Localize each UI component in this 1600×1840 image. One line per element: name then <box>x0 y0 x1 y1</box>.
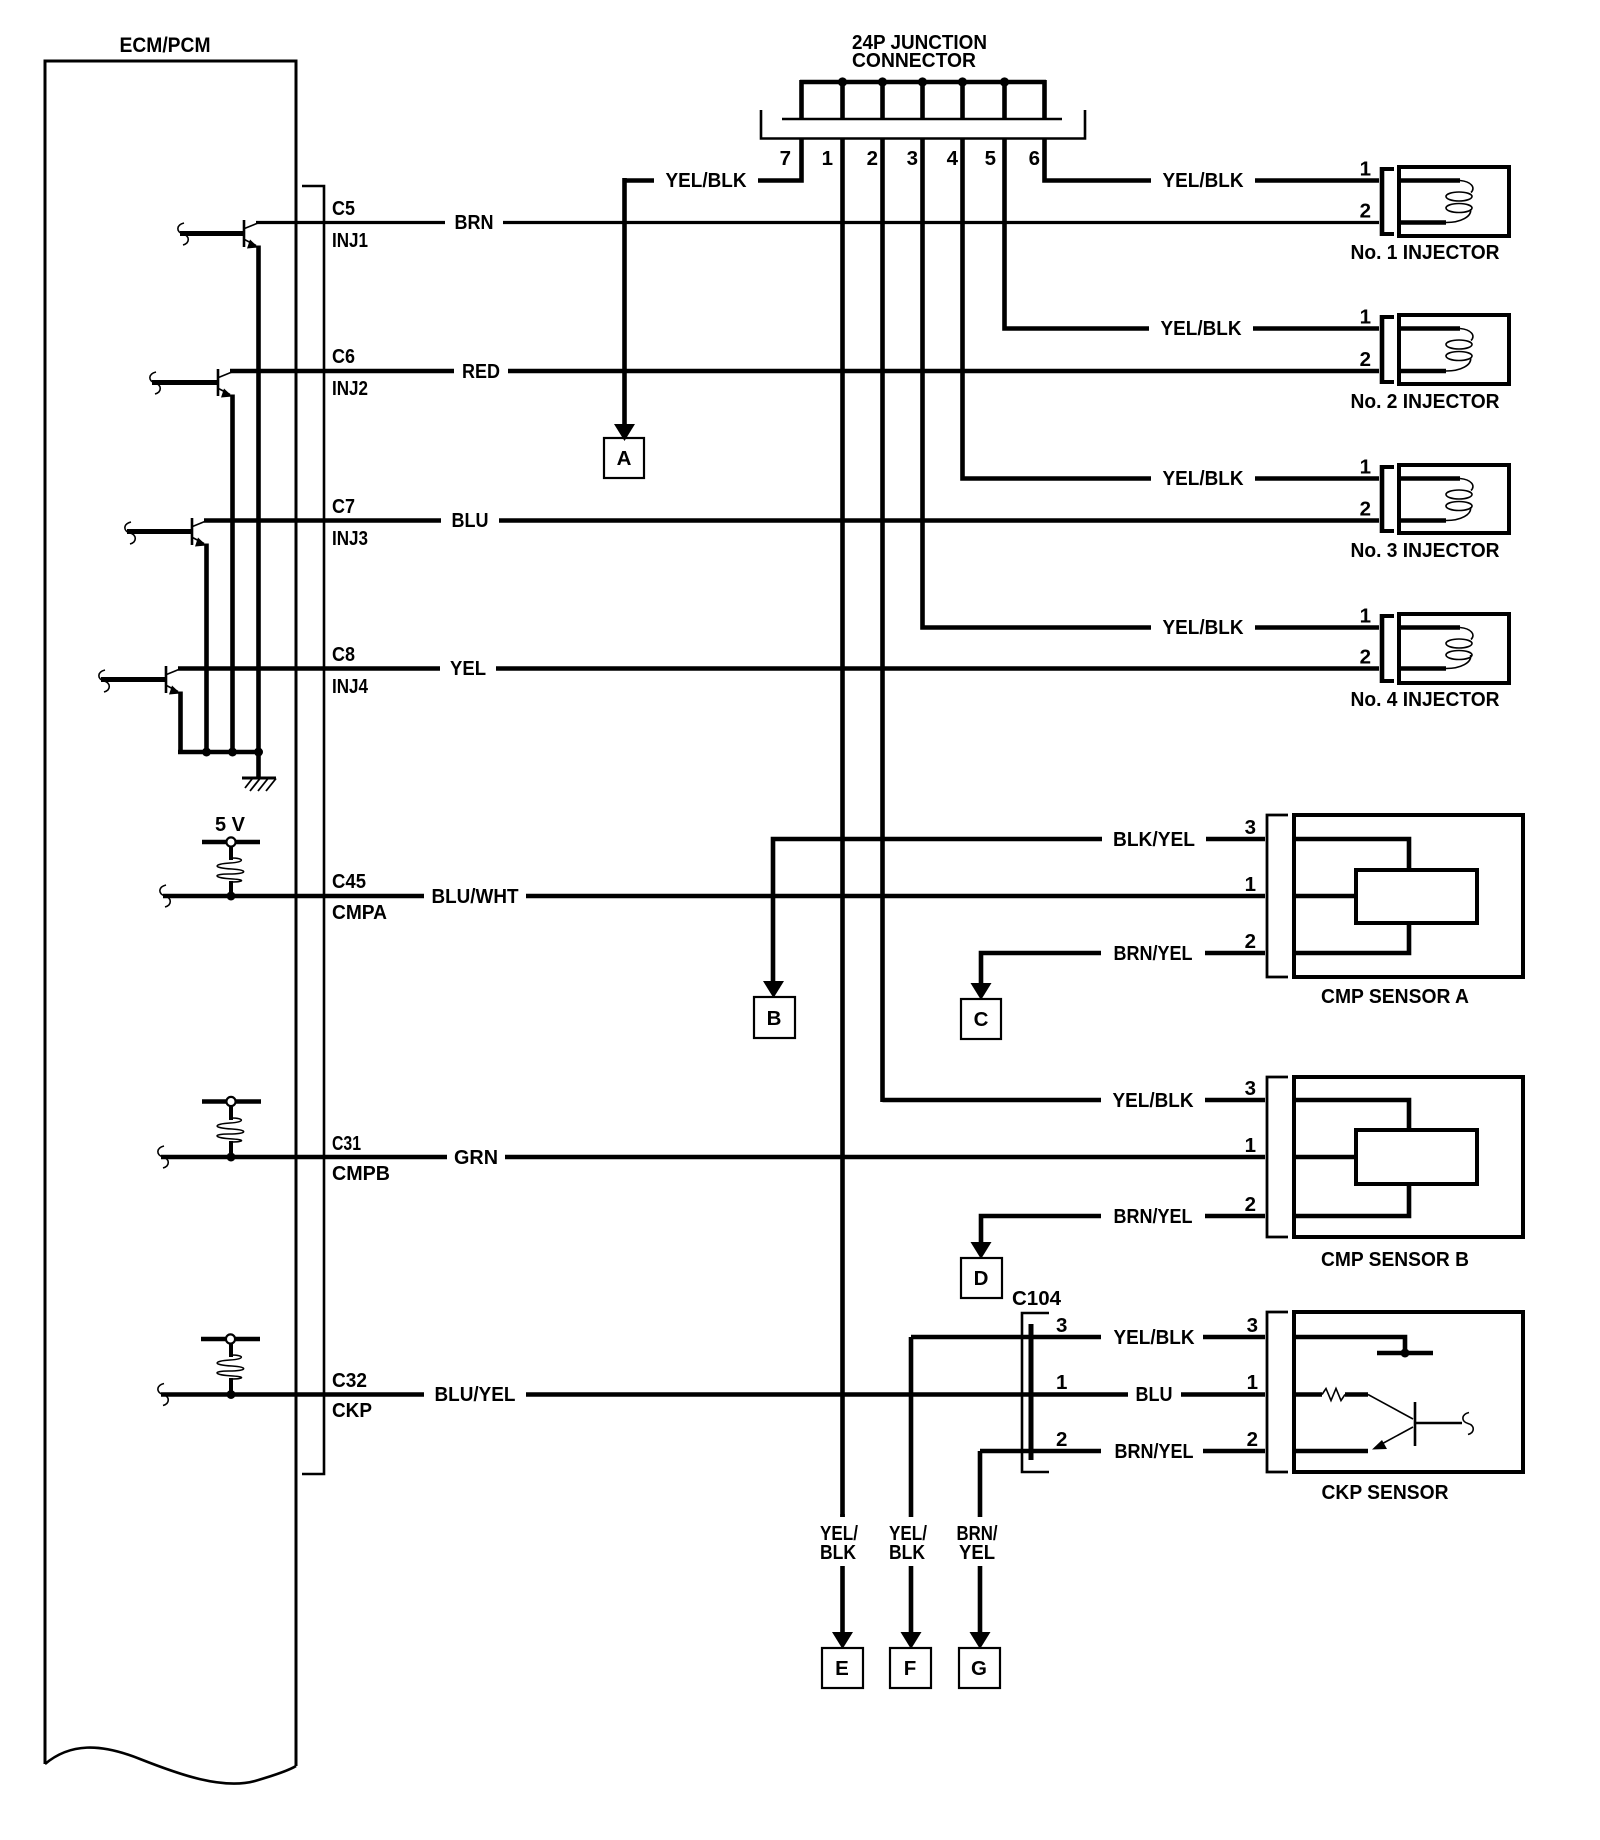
wire junction pin 2 vertical <box>880 139 885 1103</box>
node bus junction 3 <box>918 77 927 86</box>
svg-text:2: 2 <box>1245 1193 1256 1216</box>
svg-text:YEL: YEL <box>959 1541 995 1564</box>
svg-text:BLK/YEL: BLK/YEL <box>1113 828 1195 851</box>
svg-text:3: 3 <box>1245 816 1256 839</box>
CKP sensor box <box>1294 1312 1523 1472</box>
svg-text:BLK: BLK <box>889 1541 925 1564</box>
wire YEL/BLK to No.4 injector pin 1 <box>1255 625 1379 630</box>
5V supply CMPA <box>202 840 260 845</box>
connector bracket CMP sensor B <box>1267 1077 1288 1237</box>
svg-text:No. 4 INJECTOR: No. 4 INJECTOR <box>1351 688 1500 711</box>
node A <box>604 438 644 478</box>
24P junction connector bus bar <box>800 80 1046 85</box>
svg-text:C104: C104 <box>1012 1287 1062 1310</box>
transistor INJ2 driver <box>150 372 160 394</box>
svg-text:YEL: YEL <box>450 657 486 680</box>
svg-text:CMP SENSOR B: CMP SENSOR B <box>1321 1248 1469 1271</box>
CMP sensor A internal element <box>1296 839 1409 872</box>
24P junction connector body lower line <box>761 110 1085 139</box>
node C <box>961 999 1001 1039</box>
wire junction pin 5 vertical <box>1005 139 1150 329</box>
svg-text:INJ4: INJ4 <box>332 675 368 698</box>
svg-text:No. 3 INJECTOR: No. 3 INJECTOR <box>1351 539 1500 562</box>
5V supply CKP <box>201 1337 260 1342</box>
ground <box>256 752 261 778</box>
svg-text:5: 5 <box>985 147 996 170</box>
CMP sensor B box <box>1294 1077 1523 1237</box>
svg-text:RED: RED <box>462 360 500 383</box>
svg-text:1: 1 <box>1247 1371 1258 1394</box>
svg-text:2: 2 <box>1360 200 1371 223</box>
wire emitter ground bus <box>178 750 259 755</box>
wire YEL (C8 to No.4 injector pin 2) <box>178 666 440 671</box>
node C32 junction <box>227 1390 236 1399</box>
wire junction pin 4 vertical <box>963 139 1152 479</box>
connector C104 <box>1022 1313 1049 1472</box>
ECM/PCM box <box>45 61 296 1766</box>
svg-text:E: E <box>835 1657 849 1680</box>
CKP sensor internal pin 2 lead <box>1296 1449 1368 1454</box>
node emitter junction 3 <box>254 748 263 757</box>
svg-text:1: 1 <box>1360 605 1371 628</box>
svg-text:1: 1 <box>822 147 833 170</box>
svg-text:BRN/YEL: BRN/YEL <box>1114 942 1193 965</box>
connector bracket No.1 injector <box>1380 167 1385 236</box>
svg-text:CMPB: CMPB <box>332 1162 390 1185</box>
svg-text:C6: C6 <box>332 345 355 368</box>
svg-text:1: 1 <box>1056 1371 1067 1394</box>
arrow to G <box>970 1632 991 1649</box>
wire C45 break squiggle <box>160 885 170 907</box>
svg-text:2: 2 <box>1360 498 1371 521</box>
svg-text:BLU/WHT: BLU/WHT <box>432 885 519 908</box>
wire BRN/YEL CMP sensor A pin 2 <box>981 953 1101 985</box>
svg-text:2: 2 <box>1056 1428 1067 1451</box>
wire INJ3 emitter <box>204 544 209 753</box>
svg-text:3: 3 <box>1245 1077 1256 1100</box>
arrow to C <box>971 983 992 1000</box>
wire YEL/BLK vertical to F <box>909 1337 914 1517</box>
connector bracket No.2 injector <box>1380 315 1385 384</box>
node bus junction 4 <box>958 77 967 86</box>
transistor INJ4 driver <box>99 670 109 692</box>
svg-text:BRN/YEL: BRN/YEL <box>1115 1440 1194 1463</box>
svg-text:C32: C32 <box>332 1369 367 1392</box>
wire YEL/BLK vertical to E <box>840 1514 845 1517</box>
svg-text:1: 1 <box>1360 158 1371 181</box>
svg-text:INJ3: INJ3 <box>332 527 368 550</box>
ECM connector strip <box>302 186 324 1474</box>
wire BLK/YEL CMP sensor A pin 3 <box>773 839 1102 983</box>
wire BRN/YEL CMP sensor B pin 2 <box>981 1216 1101 1244</box>
svg-text:YEL/BLK: YEL/BLK <box>666 169 747 192</box>
wire C31 break squiggle <box>158 1146 168 1168</box>
resistor CMPA pull-up <box>217 858 244 882</box>
wire BLU/YEL (C32 to CKP sensor pin 1 via C104) <box>161 1392 424 1397</box>
wire YEL/BLK to No.3 injector pin 1 <box>1255 476 1379 481</box>
svg-text:YEL/BLK: YEL/BLK <box>1161 317 1242 340</box>
CKP sensor internal pickup element <box>1368 1395 1413 1420</box>
CMP sensor B internal element <box>1296 1100 1409 1132</box>
node emitter junction 2 <box>228 748 237 757</box>
svg-text:C: C <box>974 1008 989 1031</box>
svg-text:4: 4 <box>947 147 959 170</box>
wire YEL/BLK to No.2 injector pin 1 <box>1253 326 1379 331</box>
svg-text:2: 2 <box>1360 348 1371 371</box>
wire junction pin 7 drop <box>758 139 802 181</box>
svg-text:A: A <box>617 447 632 470</box>
svg-text:BLK: BLK <box>820 1541 856 1564</box>
svg-text:YEL/BLK: YEL/BLK <box>1163 616 1244 639</box>
connector bracket CKP sensor <box>1267 1312 1288 1472</box>
svg-text:CONNECTOR: CONNECTOR <box>852 49 976 72</box>
No.2 injector coil box <box>1399 315 1509 384</box>
svg-text:2: 2 <box>1247 1428 1258 1451</box>
svg-text:C8: C8 <box>332 643 355 666</box>
svg-text:INJ2: INJ2 <box>332 377 368 400</box>
CKP sensor internal ground <box>1296 1337 1405 1351</box>
svg-text:3: 3 <box>907 147 918 170</box>
wire BRN (C5 to No.1 injector pin 2) <box>256 221 445 224</box>
wire YEL/BLK CMP sensor B pin 3 <box>883 1098 1102 1103</box>
node D <box>961 1258 1002 1298</box>
transistor INJ1 driver <box>178 223 188 245</box>
wire YEL/BLK to No.1 injector pin 1 <box>1255 178 1379 183</box>
svg-text:2: 2 <box>867 147 878 170</box>
5V supply CMPB <box>202 1099 261 1104</box>
svg-text:C7: C7 <box>332 495 355 518</box>
svg-text:CMP SENSOR A: CMP SENSOR A <box>1321 985 1469 1008</box>
No.3 injector coil box <box>1399 465 1509 533</box>
arrow to F <box>901 1632 922 1649</box>
transistor INJ3 driver <box>125 522 135 544</box>
connector bracket CMP sensor A <box>1267 815 1288 977</box>
arrow to D <box>971 1242 992 1259</box>
wire GRN (C31 to CMP sensor B pin 1) <box>161 1155 447 1160</box>
24P junction connector body upper line <box>782 118 1062 121</box>
svg-text:C45: C45 <box>332 870 366 893</box>
svg-text:BLU/YEL: BLU/YEL <box>435 1383 516 1406</box>
node B <box>754 997 795 1038</box>
svg-text:1: 1 <box>1360 456 1371 479</box>
svg-text:1: 1 <box>1245 873 1256 896</box>
svg-text:3: 3 <box>1056 1314 1067 1337</box>
CKP sensor internal resistor <box>1296 1392 1322 1397</box>
wire BRN/YEL vertical to G <box>978 1451 983 1517</box>
svg-text:CKP: CKP <box>332 1399 372 1422</box>
node bus junction 1 <box>838 77 847 86</box>
wire junction pin 3 vertical <box>923 139 1152 628</box>
wire RED (C6 to No.2 injector pin 2) <box>230 369 454 374</box>
svg-text:YEL/BLK: YEL/BLK <box>1113 1089 1194 1112</box>
arrow to B <box>763 981 784 998</box>
svg-text:5 V: 5 V <box>215 813 245 836</box>
svg-text:B: B <box>767 1007 782 1030</box>
connector bracket No.3 injector <box>1380 465 1385 533</box>
svg-text:7: 7 <box>780 147 791 170</box>
node bus junction 2 <box>878 77 887 86</box>
wire arrow drop to A <box>622 178 627 426</box>
arrow to E <box>832 1632 853 1649</box>
wire INJ1 emitter <box>256 246 261 753</box>
svg-text:BRN/YEL: BRN/YEL <box>1114 1205 1193 1228</box>
svg-text:F: F <box>904 1657 917 1680</box>
wire junction pin 6 drop <box>1045 139 1152 181</box>
svg-text:CKP SENSOR: CKP SENSOR <box>1322 1481 1449 1504</box>
wire YEL/BLK CKP sensor pin 3 <box>911 1335 1101 1340</box>
wire YEL/BLK junction pin 7 to A <box>625 178 655 183</box>
No.1 injector coil box <box>1399 167 1509 236</box>
svg-text:No. 2 INJECTOR: No. 2 INJECTOR <box>1351 390 1500 413</box>
No.4 injector coil box <box>1399 614 1509 683</box>
node C45 junction <box>227 892 236 901</box>
svg-text:1: 1 <box>1360 306 1371 329</box>
svg-text:BRN: BRN <box>455 211 494 234</box>
svg-text:C31: C31 <box>332 1132 361 1155</box>
wire C32 break squiggle <box>158 1384 168 1406</box>
node G <box>959 1648 1000 1688</box>
wire INJ4 emitter <box>178 692 183 753</box>
svg-text:No. 1 INJECTOR: No. 1 INJECTOR <box>1351 241 1500 264</box>
CMP sensor A box <box>1294 815 1523 977</box>
svg-text:6: 6 <box>1029 147 1040 170</box>
resistor CMPB pull-up <box>217 1118 244 1142</box>
24P junction connector teeth <box>799 80 804 119</box>
svg-text:C5: C5 <box>332 197 355 220</box>
wire BLU (C7 to No.3 injector pin 2) <box>204 518 441 523</box>
svg-text:1: 1 <box>1245 1134 1256 1157</box>
node C31 junction <box>227 1153 236 1162</box>
svg-text:INJ1: INJ1 <box>332 229 368 252</box>
svg-text:G: G <box>971 1657 987 1680</box>
connector bracket No.4 injector <box>1380 614 1385 683</box>
svg-text:YEL/BLK: YEL/BLK <box>1114 1326 1195 1349</box>
svg-text:D: D <box>974 1267 989 1290</box>
svg-text:CMPA: CMPA <box>332 901 387 924</box>
svg-text:3: 3 <box>1247 1314 1258 1337</box>
node F <box>890 1648 931 1688</box>
svg-text:2: 2 <box>1245 930 1256 953</box>
svg-text:ECM/PCM: ECM/PCM <box>120 34 211 57</box>
svg-text:2: 2 <box>1360 646 1371 669</box>
wire junction pin 1 vertical <box>840 139 845 1518</box>
svg-text:BLU: BLU <box>1136 1383 1173 1406</box>
svg-text:YEL/BLK: YEL/BLK <box>1163 467 1244 490</box>
node bus junction 5 <box>1000 77 1009 86</box>
resistor CKP pull-up <box>217 1355 244 1379</box>
svg-text:YEL/BLK: YEL/BLK <box>1163 169 1244 192</box>
wire INJ2 emitter <box>230 395 235 753</box>
svg-text:GRN: GRN <box>454 1146 498 1169</box>
svg-text:BLU: BLU <box>452 509 489 532</box>
node emitter junction 1 <box>202 748 211 757</box>
node E <box>822 1648 863 1688</box>
wire BLU/WHT (C45 to CMP sensor A pin 1) <box>163 894 424 899</box>
wire BRN/YEL CKP sensor pin 2 <box>980 1449 1101 1454</box>
